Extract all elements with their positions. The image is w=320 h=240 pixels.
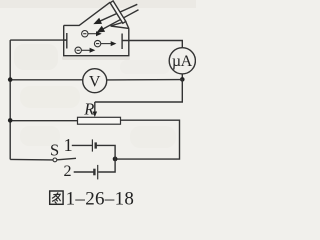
wire left vertical bbox=[9, 40, 11, 159]
light ray arrowheads bbox=[93, 18, 105, 33]
light ray 2 bbox=[102, 10, 138, 30]
svg-text:R: R bbox=[83, 99, 94, 118]
phototube window glass bbox=[110, 1, 126, 23]
wire top left bbox=[10, 39, 67, 41]
wire middle voltmeter branch bbox=[10, 79, 83, 81]
wire bottom left bbox=[10, 158, 53, 161]
svg-text:2: 2 bbox=[64, 163, 72, 180]
electron e2 bbox=[94, 40, 111, 46]
battery 2 bbox=[94, 165, 97, 180]
node left junction R bbox=[8, 118, 13, 123]
light ray 1 bbox=[100, 4, 138, 21]
voltmeter V bbox=[83, 69, 107, 93]
battery 1 bbox=[92, 139, 95, 151]
anode plate A bbox=[121, 34, 123, 50]
rheostat slider arrow bbox=[94, 102, 96, 113]
electron e3 bbox=[75, 47, 91, 53]
node right junction bbox=[180, 77, 185, 82]
wire R right down bbox=[115, 120, 179, 159]
caption glyph tu (drawn) bbox=[50, 191, 63, 204]
svg-text:V: V bbox=[89, 74, 101, 91]
battery 2 branch wires bbox=[74, 159, 115, 172]
rheostat R body bbox=[78, 117, 121, 124]
svg-text:1: 1 bbox=[64, 135, 73, 155]
node battery junction bbox=[113, 157, 118, 162]
svg-text:1–26–18: 1–26–18 bbox=[66, 188, 135, 209]
wire junction to slider bbox=[95, 79, 183, 102]
ray 1 arrowhead bbox=[93, 18, 102, 24]
electron e1 bbox=[82, 31, 97, 37]
cathode plate K bbox=[66, 33, 68, 49]
phototube envelope bbox=[64, 2, 129, 56]
svg-text:µA: µA bbox=[172, 53, 193, 70]
wire R left bbox=[10, 120, 77, 122]
battery 1 branch wires bbox=[72, 145, 115, 159]
ray 2 arrowhead bbox=[96, 26, 105, 33]
switch S bbox=[53, 158, 57, 162]
microammeter uA bbox=[169, 48, 195, 74]
wire top right bbox=[122, 41, 182, 48]
wire uA to junction bbox=[181, 74, 183, 80]
svg-text:S: S bbox=[50, 141, 59, 160]
node left junction V bbox=[8, 77, 13, 82]
